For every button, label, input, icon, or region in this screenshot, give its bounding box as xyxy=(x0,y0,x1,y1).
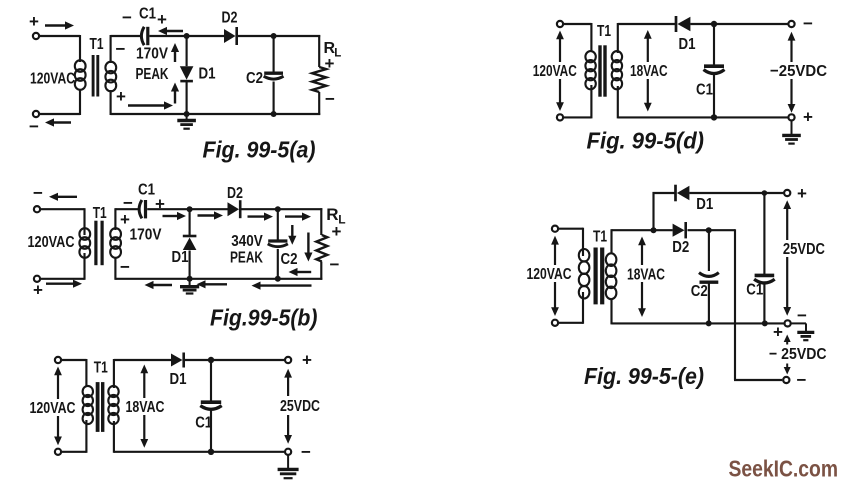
svg-text:+: + xyxy=(29,12,39,31)
polarity label − (b C1 left) xyxy=(123,194,133,213)
measure arrow 25VDC (c) xyxy=(284,369,292,444)
wire: D1 branch vertical (a) xyxy=(186,36,188,114)
svg-text:+: + xyxy=(803,108,813,127)
polarity label − (e common terminal upper) xyxy=(797,306,807,325)
svg-text:C2: C2 xyxy=(281,251,298,268)
figure caption Fig. 99-5(a) xyxy=(203,137,316,163)
current flow arrow (b, top input, leftward) xyxy=(49,193,77,201)
node junction at D1 top (a) xyxy=(184,33,190,39)
measure arrow −25VDC upper (e) xyxy=(784,335,791,345)
wire: secondary top to C1 (b) xyxy=(115,208,140,210)
svg-text:+: + xyxy=(155,195,165,214)
svg-text:−: − xyxy=(803,14,813,33)
svg-text:T1: T1 xyxy=(597,23,611,40)
value label 120VAC (d) xyxy=(533,63,577,80)
current flow arrow (b, bottom rail middle, leftward) xyxy=(197,280,228,288)
value label 120VAC (e) xyxy=(527,266,572,283)
node junction at C1 top (c) xyxy=(208,357,214,363)
capacitor C2 branch wires (e) xyxy=(708,230,710,323)
svg-text:Fig. 99-5(d): Fig. 99-5(d) xyxy=(587,128,705,154)
label D1 (c) xyxy=(170,371,187,388)
transformer T1 primary winding (c) xyxy=(83,386,93,424)
current flow arrow (a, below D1, upward) xyxy=(171,83,179,104)
transformer T1 secondary winding (c) xyxy=(108,386,118,424)
svg-text:−: − xyxy=(797,306,807,325)
value label 25VDC (c) xyxy=(280,398,320,415)
label D2 (b) xyxy=(227,185,243,202)
polarity label + (d output bottom) xyxy=(803,108,813,127)
node junction at C2 bottom (b) xyxy=(275,276,281,282)
node junction at C2 top (a) xyxy=(271,33,277,39)
capacitor C2 branch wires (a) xyxy=(273,36,275,114)
polarity label − (a load bottom) xyxy=(325,90,335,109)
wire: node to − output terminal (d) xyxy=(714,23,788,25)
node junction at ground (a) xyxy=(184,111,190,117)
node: AC input top terminal (d) xyxy=(557,21,563,27)
polarity label + (b C1 right) xyxy=(155,195,165,214)
svg-text:25VDC: 25VDC xyxy=(280,398,320,415)
current flow arrow (b, bottom input, rightward) xyxy=(46,280,82,288)
svg-text:D1: D1 xyxy=(679,36,696,53)
svg-text:−: − xyxy=(116,40,126,59)
label C2 (b) xyxy=(281,251,298,268)
polarity label + (e output top) xyxy=(797,184,807,203)
value label 18VAC (d) xyxy=(630,63,668,80)
value label −25VDC (d) xyxy=(770,63,827,80)
value label 25VDC (e) xyxy=(783,241,825,258)
capacitor C2 (a) xyxy=(264,73,284,79)
wire: D1 to node (d) xyxy=(690,23,714,25)
node: AC input top terminal (e) xyxy=(552,226,558,232)
measure arrow −25VDC (d) xyxy=(788,32,796,113)
svg-text:−: − xyxy=(325,90,335,109)
svg-text:−: − xyxy=(29,117,39,136)
ground symbol (a) xyxy=(177,114,196,129)
svg-text:Fig. 99-5(a): Fig. 99-5(a) xyxy=(203,137,316,163)
diode D1 (c) xyxy=(171,353,184,368)
wire: bottom rail secondary to ground node (a) xyxy=(111,113,187,115)
svg-text:170V: 170V xyxy=(136,45,168,62)
node junction at C1 bottom (d) xyxy=(711,114,717,120)
capacitor C1 (d) xyxy=(704,66,725,73)
node: + output terminal (d) xyxy=(788,114,794,120)
current flow arrow (b, load branch, downward) xyxy=(304,233,312,262)
current flow arrow (a, after C1, leftward) xyxy=(158,27,183,35)
polarity label − (a C1 left) xyxy=(122,8,132,27)
node: AC input bottom terminal (b) xyxy=(34,276,40,282)
svg-text:D1: D1 xyxy=(170,371,187,388)
transformer T1 secondary winding (d) xyxy=(612,51,622,89)
svg-text:−: − xyxy=(120,258,130,277)
label C1 (e) xyxy=(746,282,763,299)
wire: node A to diode D2 (e) xyxy=(654,229,673,231)
wire: D1 to node (c) xyxy=(185,359,212,361)
wire: bottom rail to − output terminal (c) xyxy=(114,451,284,453)
node junction at C2 bottom (a) xyxy=(271,111,277,117)
label D2 (e) xyxy=(672,239,689,256)
wire: node to + output terminal (c) xyxy=(211,359,284,361)
polarity label + (a secondary bottom) xyxy=(116,87,126,106)
svg-text:−: − xyxy=(33,184,43,203)
wire: secondary leads (c) xyxy=(113,359,115,453)
svg-text:C1: C1 xyxy=(138,182,155,199)
current flow arrow (b, after D2, rightward) xyxy=(248,213,274,221)
measure arrow 120VAC (d) xyxy=(556,31,564,112)
wire: node B to load R_L (b) xyxy=(278,208,323,235)
diode D1 (d) xyxy=(676,16,690,32)
current flow arrow (b, after C1, rightward) xyxy=(163,212,187,220)
svg-text:+: + xyxy=(325,54,335,73)
polarity label + (b input bottom) xyxy=(33,281,43,300)
label C1 (b) xyxy=(138,182,155,199)
value label 120VAC (c) xyxy=(30,400,76,417)
label T1 (d) xyxy=(597,23,611,40)
ground symbol (e) xyxy=(791,323,814,340)
wire: bottom rail to + output terminal (d) xyxy=(618,116,788,118)
wire: node A to diode D2 (a) xyxy=(187,35,224,37)
capacitor C1 branch wires (e) xyxy=(763,193,765,323)
node: AC input bottom terminal (a) xyxy=(33,111,39,117)
wire: D2 to C2 node (e) xyxy=(688,229,710,231)
svg-text:120VAC: 120VAC xyxy=(527,266,572,283)
ground symbol (b) xyxy=(180,279,199,294)
wire: bottom input to transformer primary (a) xyxy=(40,89,80,115)
label D1 (b) xyxy=(172,249,189,266)
capacitor C2 (b) xyxy=(268,241,288,247)
node: + output terminal (c) xyxy=(285,357,291,363)
current flow arrow (b, into C2, downward) xyxy=(288,225,296,245)
svg-text:+: + xyxy=(332,222,342,241)
svg-text:− 25VDC: − 25VDC xyxy=(769,346,827,363)
wire: D1 to C1 node (e) xyxy=(689,192,764,194)
node junction at C2 bottom (e) xyxy=(706,320,712,326)
node junction at C1 top (d) xyxy=(711,21,717,27)
svg-text:C1: C1 xyxy=(746,282,763,299)
node junction at C1 bottom (c) xyxy=(208,449,214,455)
svg-text:+: + xyxy=(33,281,43,300)
label D1 (a) xyxy=(199,65,216,82)
svg-text:D2: D2 xyxy=(222,9,238,26)
wire: bottom input to transformer primary (b) xyxy=(41,253,85,280)
wire: top input to transformer primary (d) xyxy=(564,23,592,52)
polarity label − (a secondary top) xyxy=(116,40,126,59)
transformer T1 primary winding (e) xyxy=(579,249,590,299)
wire: node B to load R_L (a) xyxy=(274,35,321,67)
svg-text:18VAC: 18VAC xyxy=(627,266,665,283)
label R_L (b) xyxy=(326,205,345,227)
current flow arrow (b, bottom rail left segment, leftward) xyxy=(145,281,173,289)
svg-text:D1: D1 xyxy=(172,249,189,266)
wire: C2 node to drop wire (e) xyxy=(709,229,735,231)
wire: C1 node to + terminal (e) xyxy=(764,192,783,194)
capacitor C2 (e) xyxy=(699,273,719,283)
svg-text:120VAC: 120VAC xyxy=(30,400,76,417)
node junction at D1 branch (e) xyxy=(651,227,657,233)
svg-text:25VDC: 25VDC xyxy=(783,241,825,258)
polarity label − (b load bottom) xyxy=(330,255,340,274)
wire: secondary leads (a) xyxy=(110,35,112,115)
current flow arrow (a, bottom rail, rightward) xyxy=(128,101,173,109)
label C2 (e) xyxy=(691,283,708,300)
wire: D1 branch vertical (b) xyxy=(189,209,191,279)
svg-text:−25VDC: −25VDC xyxy=(770,63,827,80)
wire: secondary top to diode D1 (d) xyxy=(618,23,676,25)
svg-text:+: + xyxy=(116,87,126,106)
diode D1 (b) xyxy=(183,236,197,250)
polarity label − (d output top) xyxy=(803,14,813,33)
wire: secondary leads (b) xyxy=(114,208,116,280)
capacitor C1 (a) xyxy=(141,27,147,45)
polarity label − (a input bottom) xyxy=(29,117,39,136)
wire: bottom rail (e) xyxy=(612,322,785,324)
value label − 25VDC (e) xyxy=(769,346,827,363)
polarity label + (a C1 right) xyxy=(157,10,167,29)
ground symbol (d) xyxy=(782,121,801,144)
polarity label + (a load top) xyxy=(325,54,335,73)
label D1 (d) xyxy=(679,36,696,53)
label C1 (c) xyxy=(195,414,212,431)
capacitor C1 branch wires (d) xyxy=(713,24,715,117)
svg-text:T1: T1 xyxy=(593,228,607,245)
wire: top input to transformer primary (a) xyxy=(40,35,80,62)
wire: secondary leads (e) xyxy=(610,229,612,324)
polarity label − (e output bottom) xyxy=(797,371,807,390)
svg-text:+: + xyxy=(797,184,807,203)
transformer T1 core (b) xyxy=(96,221,102,266)
svg-text:PEAK: PEAK xyxy=(230,249,263,266)
svg-text:D2: D2 xyxy=(227,185,243,202)
value label PEAK (b) xyxy=(230,249,263,266)
wire: ground node to C2 bottom (b) xyxy=(190,278,278,280)
polarity label + (b secondary top) xyxy=(120,210,130,229)
svg-text:L: L xyxy=(334,48,341,60)
wire: secondary leads (d) xyxy=(617,23,619,118)
wire: top input to transformer primary (b) xyxy=(41,208,85,235)
figure caption Fig. 99-5-(e) xyxy=(584,363,704,389)
transformer T1 core (d) xyxy=(600,45,605,96)
label D1 (e) xyxy=(696,196,713,213)
wire: top input to transformer primary (e) xyxy=(559,228,583,256)
label C2 (a) xyxy=(246,70,263,87)
node: − output terminal (c) xyxy=(285,449,291,455)
value label 170V (b) xyxy=(130,227,162,244)
current flow arrow (b, above bottom rail, leftward) xyxy=(289,268,312,276)
transformer T1 core (e) xyxy=(596,248,603,305)
svg-text:18VAC: 18VAC xyxy=(126,399,165,416)
wire: R_L to bottom rail (b) xyxy=(278,262,323,280)
current flow arrow (b, bottom rail right, leftward) xyxy=(252,282,312,290)
current flow arrow (a, top input, rightward) xyxy=(45,21,74,29)
transformer T1 secondary winding (e) xyxy=(606,253,617,299)
value label 120VAC (a) xyxy=(30,70,75,87)
node: − output terminal (e) xyxy=(783,377,789,383)
watermark SeekIC.com xyxy=(729,456,839,482)
value label 18VAC (e) xyxy=(627,266,665,283)
wire: secondary top to diode D1 (c) xyxy=(114,359,171,361)
svg-text:T1: T1 xyxy=(90,36,104,53)
node: AC input bottom terminal (e) xyxy=(552,320,558,326)
svg-text:D1: D1 xyxy=(696,196,713,213)
transformer T1 core (c) xyxy=(98,382,103,432)
node junction at C1 top (e) xyxy=(762,190,768,196)
label D2 (a) xyxy=(222,9,238,26)
svg-text:−: − xyxy=(797,371,807,390)
node: AC input top terminal (c) xyxy=(55,357,61,363)
wire: D2 to node B (b) xyxy=(242,208,279,210)
svg-text:120VAC: 120VAC xyxy=(28,234,75,251)
node: − output terminal (d) xyxy=(788,21,794,27)
transformer T1 primary winding (a) xyxy=(75,60,86,90)
svg-text:C2: C2 xyxy=(246,70,263,87)
resistor R_L (a) xyxy=(312,67,326,92)
measure arrow 18VAC (e) xyxy=(638,237,646,318)
svg-text:C1: C1 xyxy=(195,414,212,431)
svg-text:C2: C2 xyxy=(691,283,708,300)
node junction at ground (b) xyxy=(187,276,193,282)
wire: ground node to C2 bottom (a) xyxy=(187,113,274,115)
measure arrow 18VAC (d) xyxy=(644,30,652,112)
wire: bottom input to transformer primary (d) xyxy=(564,85,592,118)
svg-text:T1: T1 xyxy=(93,205,107,222)
current flow arrow (b, node B to load, rightward) xyxy=(285,213,311,221)
svg-text:340V: 340V xyxy=(231,233,263,250)
node junction at C1 bottom (e) xyxy=(762,320,768,326)
node: AC input top terminal (a) xyxy=(33,33,39,39)
node: common output terminal (e) xyxy=(785,320,791,326)
measure arrow 120VAC (c) xyxy=(54,367,62,446)
polarity label − (b secondary bottom) xyxy=(120,258,130,277)
measure arrow −25VDC lower (e) xyxy=(784,364,791,375)
value label 120VAC (b) xyxy=(28,234,75,251)
capacitor C2 branch wires (b) xyxy=(277,209,279,279)
svg-text:120VAC: 120VAC xyxy=(30,70,75,87)
node junction at D1 top (b) xyxy=(187,206,193,212)
wire: bottom input to transformer primary (c) xyxy=(62,420,87,453)
polarity label − (c output bottom) xyxy=(301,443,311,462)
svg-text:−: − xyxy=(301,443,311,462)
polarity label + (c output top) xyxy=(302,351,312,370)
current flow arrow (a, above D1, upward) xyxy=(171,43,179,62)
svg-text:D2: D2 xyxy=(672,239,689,256)
wire: bottom input to transformer primary (e) xyxy=(559,292,583,324)
value label 170V (a) xyxy=(136,45,168,62)
polarity label − (b input top) xyxy=(33,184,43,203)
value label PEAK (a) xyxy=(136,66,169,83)
wire: bottom rail secondary to ground node (b) xyxy=(115,278,190,280)
wire: C1 to node A (a) xyxy=(150,35,188,37)
svg-text:SeekIC.com: SeekIC.com xyxy=(729,456,839,482)
node: AC input bottom terminal (d) xyxy=(557,114,563,120)
svg-text:C1: C1 xyxy=(696,82,713,99)
svg-text:Fig.99-5(b): Fig.99-5(b) xyxy=(210,305,318,331)
node junction at C2 top (e) xyxy=(706,227,712,233)
value label 18VAC (c) xyxy=(126,399,165,416)
figure caption Fig.99-5(b) xyxy=(210,305,318,331)
svg-text:18VAC: 18VAC xyxy=(630,63,668,80)
label T1 (a) xyxy=(90,36,104,53)
wire: drop to negative output (e) xyxy=(734,229,782,380)
wire: top input to transformer primary (c) xyxy=(62,359,87,387)
label R_L (a) xyxy=(324,40,342,60)
transformer T1 secondary winding (b) xyxy=(110,228,121,258)
transformer T1 core (a) xyxy=(93,55,98,97)
current flow arrow (b, node A to D2, rightward) xyxy=(198,211,224,219)
svg-text:+: + xyxy=(302,351,312,370)
svg-text:+: + xyxy=(773,323,783,342)
label C1 (d) xyxy=(696,82,713,99)
transformer T1 primary winding (b) xyxy=(79,228,90,258)
node: AC input top terminal (b) xyxy=(34,206,40,212)
node: AC input bottom terminal (c) xyxy=(55,449,61,455)
capacitor C1 (e) xyxy=(754,275,775,283)
capacitor C1 branch wires (c) xyxy=(210,360,212,452)
wire: secondary top to C1 (a) xyxy=(111,35,143,37)
diode D2 (b) xyxy=(228,200,241,218)
label T1 (c) xyxy=(94,359,108,376)
wire: node A to diode D2 (b) xyxy=(190,208,228,210)
transformer T1 primary winding (d) xyxy=(585,51,595,89)
resistor R_L (b) xyxy=(316,235,327,262)
svg-text:170V: 170V xyxy=(130,227,162,244)
label T1 (e) xyxy=(593,228,607,245)
diode D1 (a) xyxy=(180,66,194,81)
wire: C1 to node A (b) xyxy=(147,208,190,210)
node: + output terminal (e) xyxy=(784,190,790,196)
wire: secondary top to node A (e) xyxy=(612,229,655,231)
measure arrow 120VAC (e) xyxy=(551,236,559,316)
label C1 (a) xyxy=(139,5,156,22)
wire: R_L to bottom rail (a) xyxy=(274,92,321,115)
capacitor C1 (c) xyxy=(200,402,221,409)
diode D2 (a) xyxy=(224,27,237,45)
diode D1 (e) xyxy=(676,185,690,202)
svg-text:+: + xyxy=(157,10,167,29)
polarity label + (a input top) xyxy=(29,12,39,31)
svg-text:PEAK: PEAK xyxy=(136,66,169,83)
svg-text:D1: D1 xyxy=(199,65,216,82)
polarity label + (b load top) xyxy=(332,222,342,241)
capacitor C1 (b) xyxy=(139,200,145,218)
svg-text:T1: T1 xyxy=(94,359,108,376)
svg-text:−: − xyxy=(123,194,133,213)
svg-text:120VAC: 120VAC xyxy=(533,63,577,80)
transformer T1 secondary winding (a) xyxy=(105,62,116,92)
polarity label + (e common terminal lower) xyxy=(773,323,783,342)
svg-text:Fig. 99-5-(e): Fig. 99-5-(e) xyxy=(584,363,704,389)
svg-text:C1: C1 xyxy=(139,5,156,22)
measure arrow 25VDC (e) xyxy=(783,200,791,316)
wire: D2 to node B (a) xyxy=(238,35,274,37)
wire: branch up to D1 rail (e) xyxy=(653,192,676,230)
measure arrow 18VAC (c) xyxy=(140,365,148,448)
label T1 (b) xyxy=(93,205,107,222)
svg-text:−: − xyxy=(122,8,132,27)
node junction at C2 top (b) xyxy=(275,206,281,212)
diode D2 (e) xyxy=(673,222,686,238)
svg-text:−: − xyxy=(330,255,340,274)
value label 340V (b) xyxy=(231,233,263,250)
current flow arrow (a, bottom input, leftward) xyxy=(45,118,71,126)
figure caption Fig. 99-5(d) xyxy=(587,128,705,154)
ground symbol (c) xyxy=(278,455,299,478)
